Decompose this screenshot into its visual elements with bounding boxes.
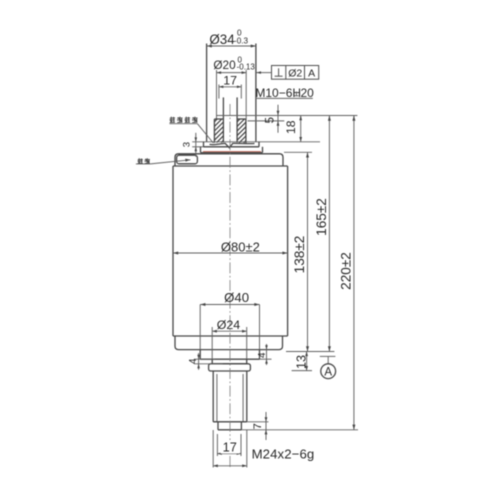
svg-text:20: 20 (301, 86, 315, 100)
svg-text:220±2: 220±2 (339, 252, 354, 290)
svg-text:-0.3: -0.3 (234, 37, 249, 46)
svg-text:Ø34: Ø34 (209, 32, 235, 47)
svg-text:4: 4 (257, 352, 268, 358)
svg-text:138±2: 138±2 (292, 236, 307, 274)
svg-text:3: 3 (182, 142, 193, 147)
svg-text:7: 7 (252, 423, 264, 429)
svg-text:13: 13 (294, 355, 308, 369)
svg-text:165±2: 165±2 (314, 198, 329, 236)
svg-text:17: 17 (223, 73, 237, 87)
svg-text:5: 5 (263, 117, 276, 123)
svg-text:Ø24: Ø24 (217, 318, 241, 332)
svg-text:-0.13: -0.13 (237, 63, 256, 72)
svg-text:Ø80±2: Ø80±2 (221, 240, 260, 255)
svg-text:A: A (308, 68, 315, 80)
svg-text:18: 18 (284, 120, 298, 134)
svg-text:17: 17 (223, 440, 237, 455)
svg-text:Ø20: Ø20 (213, 58, 236, 72)
svg-text:M24x2−6g: M24x2−6g (252, 446, 315, 461)
svg-text:4: 4 (188, 358, 199, 364)
svg-text:Ø2: Ø2 (288, 68, 302, 80)
svg-text:M10−6H: M10−6H (255, 86, 301, 100)
svg-text:Ø40: Ø40 (224, 290, 249, 305)
svg-text:A: A (324, 367, 332, 379)
